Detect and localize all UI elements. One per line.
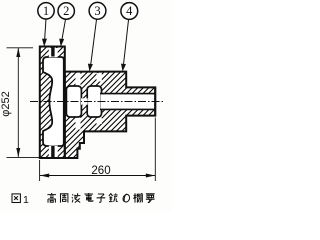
port notch bottom-left (white) [76, 118, 81, 130]
bore top line [100, 93, 155, 95]
port notch top-left (white) [76, 73, 81, 86]
glyph 高 [47, 193, 56, 203]
port notch top-right (white) [97, 73, 102, 82]
cavity cell A (white, inside disk) [43, 57, 64, 146]
glyph の [123, 194, 130, 202]
dim phi252 arrow up [16, 48, 20, 57]
glyph 図 [12, 194, 20, 203]
caption: 図1 高周波電子銃の概要 (drawn strokes) [12, 193, 155, 206]
tuner rod top (bar) [51, 46, 54, 57]
svg-text:φ252: φ252 [0, 91, 12, 117]
leader 4 [121, 19, 129, 72]
glyph 波 [72, 193, 81, 202]
leader 1 [42, 19, 47, 47]
dim 260 line [40, 175, 155, 177]
glyph 要 [146, 194, 155, 203]
glyph 周 [61, 194, 68, 203]
dim phi252 arrow down [16, 148, 20, 157]
centerline (dash-dot axis) [30, 101, 165, 103]
iris opening B-C [81, 98, 88, 104]
tuner rod bottom (bar) [51, 146, 54, 158]
glyph 概 [134, 193, 143, 202]
leader 3 [88, 19, 97, 72]
disk body (cavity block, left) [40, 47, 65, 159]
svg-text:1: 1 [43, 4, 49, 18]
callout circle 3 [89, 2, 106, 19]
dim phi252 extension tick top [7, 47, 34, 49]
dim phi252 extension tick bottom [7, 156, 40, 158]
port notch bottom-right (white) [97, 118, 102, 124]
dim 260 extension right [154, 118, 156, 182]
bore bottom line [100, 108, 155, 110]
svg-text:1: 1 [23, 194, 29, 206]
pipe end face [154, 87, 156, 117]
dim phi252 line [17, 48, 19, 157]
callout circle 1 [38, 3, 54, 19]
dim 260 arrow right [146, 174, 155, 178]
leader 2 [59, 19, 65, 47]
tuner slot top (white) [49, 48, 58, 57]
svg-text:3: 3 [94, 4, 100, 18]
glyph 電 [84, 193, 93, 201]
dim 260 arrow left [40, 174, 49, 178]
glyph 銃 [109, 193, 118, 201]
dim 260 extension left [39, 160, 41, 181]
beam pipe bore (white channel) [101, 94, 154, 109]
cavity cell B (white rounded) [66, 86, 81, 117]
callout circle 2 [58, 3, 74, 19]
svg-text:4: 4 [126, 4, 133, 18]
cavity cell C (white rounded) [87, 86, 101, 117]
svg-text:2: 2 [63, 4, 69, 18]
middle block + bottom coupler block + beam pipe outer (merged profile) [65, 72, 155, 158]
tuner slot bottom (white) [49, 146, 58, 158]
svg-text:260: 260 [91, 165, 110, 177]
glyph 子 [97, 194, 106, 202]
callout circle 4 [121, 3, 138, 20]
